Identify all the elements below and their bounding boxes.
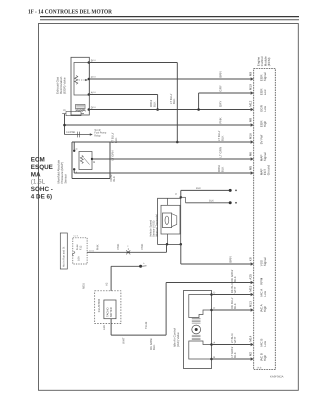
- svg-text:Low: Low: [263, 89, 267, 95]
- svg-text:K8: K8: [248, 257, 252, 261]
- svg-text:5V Ref: 5V Ref: [259, 135, 263, 145]
- svg-text:M9: M9: [248, 72, 252, 77]
- svg-text:Ground: Ground: [266, 165, 270, 176]
- svg-text:Low: Low: [263, 290, 267, 296]
- svg-text:BLK: BLK: [172, 98, 176, 104]
- svg-text:MA: MA: [31, 171, 41, 178]
- svg-text:M5: M5: [248, 166, 252, 171]
- svg-text:A: A: [213, 341, 215, 344]
- svg-text:WHT: WHT: [233, 336, 237, 343]
- svg-text:Signal: Signal: [263, 257, 267, 266]
- svg-text:Low: Low: [263, 105, 267, 111]
- svg-text:BRN: BRN: [229, 256, 233, 262]
- svg-text:(EGR) Valve: (EGR) Valve: [62, 77, 66, 94]
- svg-text:NEU: NEU: [82, 283, 86, 289]
- svg-text:High: High: [263, 355, 267, 362]
- svg-text:SOHC -: SOHC -: [31, 186, 53, 193]
- svg-text:High: High: [263, 306, 267, 313]
- svg-text:M13: M13: [248, 301, 252, 307]
- svg-text:BLK: BLK: [209, 199, 214, 202]
- svg-text:B A2: B A2: [89, 249, 94, 252]
- svg-text:WHT: WHT: [121, 337, 125, 344]
- svg-text:4E: 4E: [82, 109, 85, 112]
- svg-text:C: C: [175, 193, 177, 196]
- svg-text:KA9F042A: KA9F042A: [270, 375, 284, 379]
- svg-text:F12: F12: [79, 245, 82, 250]
- svg-text:BLK: BLK: [220, 167, 224, 173]
- svg-text:PNK: PNK: [96, 244, 100, 250]
- svg-text:GRY: GRY: [219, 101, 223, 107]
- svg-text:1D: 1D: [63, 109, 66, 112]
- svg-text:PNK: PNK: [140, 244, 144, 250]
- svg-text:M15: M15: [248, 285, 252, 291]
- svg-text:BLK: BLK: [112, 176, 116, 181]
- svg-text:B: B: [93, 161, 95, 164]
- svg-text:4 DE 6): 4 DE 6): [31, 194, 52, 201]
- svg-text:Hot in Run and St: Hot in Run and St: [63, 246, 66, 267]
- svg-text:RPM: RPM: [259, 277, 263, 284]
- svg-text:BLK: BLK: [233, 276, 237, 282]
- svg-text:(1.5L: (1.5L: [31, 179, 46, 186]
- svg-text:Low: Low: [263, 340, 267, 346]
- svg-text:GRY: GRY: [219, 85, 223, 91]
- svg-text:CLUSTER: CLUSTER: [97, 299, 101, 313]
- svg-text:LT GRN: LT GRN: [219, 147, 223, 158]
- svg-text:BLK: BLK: [152, 344, 156, 350]
- svg-text:M19: M19: [248, 84, 252, 90]
- svg-text:0.8 PNK: 0.8 PNK: [66, 131, 76, 134]
- svg-text:(Manual Transaxle): (Manual Transaxle): [156, 214, 159, 237]
- svg-text:BLK: BLK: [220, 135, 224, 141]
- svg-text:C: C: [213, 307, 215, 310]
- svg-text:High: High: [263, 121, 267, 128]
- svg-text:M12: M12: [248, 100, 252, 106]
- svg-text:C: C: [76, 148, 78, 151]
- svg-text:B: B: [213, 356, 215, 359]
- svg-text:A25: A25: [248, 274, 252, 280]
- svg-text:(IAC) Valve: (IAC) Valve: [176, 332, 180, 347]
- svg-text:LT GRN: LT GRN: [111, 151, 115, 161]
- svg-text:10A: 10A: [78, 256, 81, 261]
- svg-text:WHT: WHT: [233, 286, 237, 293]
- svg-text:1F - 14 CONTROLES DEL MOTOR: 1F - 14 CONTROLES DEL MOTOR: [28, 8, 112, 15]
- svg-text:BLK: BLK: [152, 101, 156, 107]
- svg-text:Sensor: Sensor: [63, 174, 67, 184]
- svg-text:C2 4: C2 4: [74, 235, 79, 238]
- svg-text:BLK: BLK: [233, 303, 237, 309]
- svg-text:Signal: Signal: [263, 72, 267, 81]
- svg-text:M2: M2: [248, 352, 252, 357]
- svg-text:PNK: PNK: [219, 117, 223, 123]
- svg-text:(ECM): (ECM): [267, 58, 271, 67]
- svg-text:M16: M16: [248, 133, 252, 139]
- svg-text:ESQUE: ESQUE: [31, 164, 53, 171]
- svg-text:Relay: Relay: [94, 135, 101, 138]
- svg-text:Signal: Signal: [263, 152, 267, 161]
- svg-text:D: D: [213, 291, 215, 294]
- svg-text:BLK: BLK: [196, 187, 201, 190]
- svg-text:BLK: BLK: [233, 352, 237, 358]
- svg-text:ECM: ECM: [31, 157, 45, 164]
- svg-text:M6: M6: [248, 152, 252, 157]
- svg-text:A2: A2: [106, 282, 109, 286]
- svg-text:BRN: BRN: [219, 71, 223, 77]
- svg-text:M14: M14: [248, 335, 252, 341]
- svg-text:1A 8: 1A 8: [257, 366, 262, 369]
- svg-text:A16: A16: [103, 325, 106, 330]
- svg-text:PNK: PNK: [116, 244, 120, 250]
- svg-text:METER: METER: [109, 307, 113, 317]
- svg-text:TN 43: TN 43: [145, 321, 148, 329]
- svg-text:M8: M8: [248, 118, 252, 123]
